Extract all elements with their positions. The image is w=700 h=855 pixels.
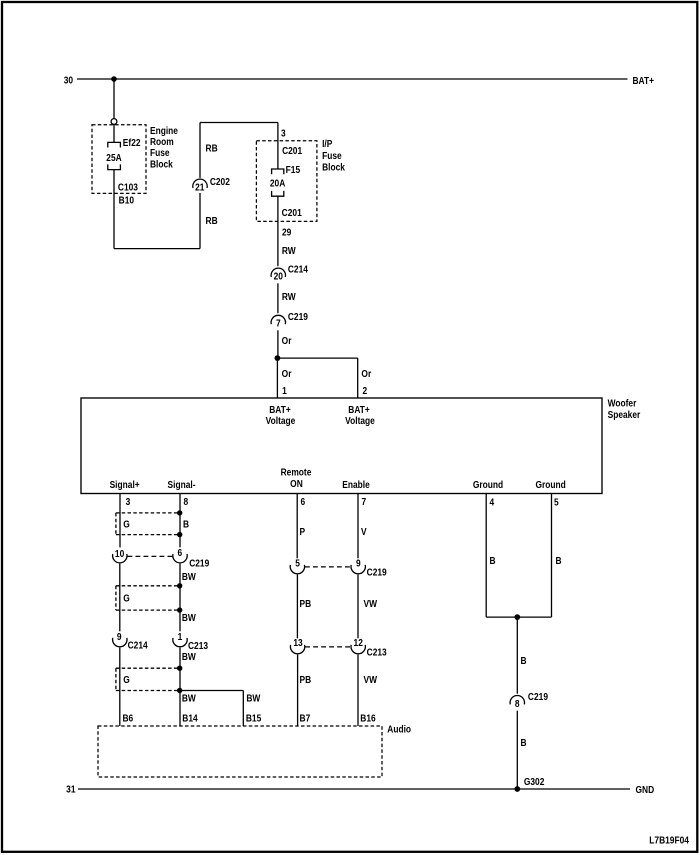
svg-text:12: 12 <box>354 637 363 649</box>
shield box 2 junction top <box>177 583 182 588</box>
svg-text:RW: RW <box>282 245 296 257</box>
wire VW pin9 to pin 12 arc <box>357 575 359 639</box>
connector circle at fuse block entry <box>111 119 117 125</box>
svg-text:VW: VW <box>364 598 378 610</box>
svg-text:I/P: I/P <box>322 138 333 150</box>
svg-text:Or: Or <box>282 335 292 347</box>
svg-text:Signal+: Signal+ <box>110 479 140 491</box>
svg-text:31: 31 <box>66 784 76 796</box>
junction Or split <box>275 355 281 361</box>
svg-text:4: 4 <box>490 496 495 508</box>
svg-text:Remote: Remote <box>281 466 312 478</box>
connector C214 arc pin 9 <box>113 638 127 647</box>
svg-text:Enable: Enable <box>342 479 370 491</box>
svg-text:RB: RB <box>206 215 218 227</box>
svg-text:Block: Block <box>322 162 345 174</box>
svg-text:7: 7 <box>276 318 281 330</box>
connector C219 arc pin 8 <box>510 696 524 705</box>
svg-text:BAT+: BAT+ <box>632 75 654 87</box>
engine room fuse block box <box>92 125 146 194</box>
svg-text:C219: C219 <box>189 558 209 570</box>
wire bus 31 GND <box>78 788 630 790</box>
shield box 3 left dashed <box>115 668 117 690</box>
svg-text:RW: RW <box>282 291 296 303</box>
wire from bus 30 to engine room fuse block <box>113 79 115 119</box>
svg-text:G: G <box>123 593 130 605</box>
svg-text:B16: B16 <box>360 713 375 725</box>
shield box 1 bottom dashed <box>116 534 180 536</box>
svg-text:21: 21 <box>195 182 205 194</box>
svg-text:Voltage: Voltage <box>266 415 296 427</box>
svg-text:3: 3 <box>126 496 131 508</box>
shield box 3 junction bottom <box>177 688 182 693</box>
svg-text:B14: B14 <box>182 713 198 725</box>
wire VW pin12 to audio unit <box>357 655 359 727</box>
svg-text:BW: BW <box>182 651 196 663</box>
svg-text:Woofer: Woofer <box>608 398 637 410</box>
svg-text:G: G <box>123 674 130 686</box>
svg-text:C214: C214 <box>288 263 309 275</box>
wire RB above C202 <box>199 123 201 178</box>
wire BW pin1 to audio unit <box>179 648 181 727</box>
svg-text:G302: G302 <box>524 776 545 788</box>
connector link dashed pins 5-9 <box>305 566 351 568</box>
svg-text:C103: C103 <box>118 182 138 194</box>
shield box 1 junction top <box>177 510 182 515</box>
svg-text:Signal-: Signal- <box>168 479 196 491</box>
connector C219 arc pin 10 <box>113 554 127 563</box>
wire circle to fuse Ef22 <box>113 124 115 142</box>
audio unit box <box>98 726 382 777</box>
svg-text:GND: GND <box>636 784 655 796</box>
wire PB pin13 to audio unit <box>297 655 299 727</box>
svg-text:BW: BW <box>182 693 196 705</box>
svg-text:C219: C219 <box>528 691 548 703</box>
svg-text:ON: ON <box>290 478 303 490</box>
connector C213 arc pin 13 <box>290 645 304 654</box>
svg-text:8: 8 <box>184 496 189 508</box>
junction G302 <box>514 786 520 792</box>
woofer speaker box U1 <box>81 398 602 494</box>
connector C213 arc pin 12 <box>351 645 365 654</box>
svg-text:Block: Block <box>150 158 173 170</box>
svg-text:5: 5 <box>554 496 559 508</box>
connector C219 arc pin 7 <box>271 315 285 324</box>
wire fuse Ef22 to corner <box>113 170 115 249</box>
wire top link to I/P fuse block <box>200 122 278 124</box>
svg-text:Speaker: Speaker <box>608 409 641 421</box>
connector C219 arc pin 9 right <box>351 565 365 574</box>
wire BW branch horizontal <box>180 690 244 692</box>
svg-text:BW: BW <box>246 693 260 705</box>
wire B C219 to G302 <box>516 711 518 789</box>
svg-text:2: 2 <box>362 385 367 397</box>
connector C202 arc pin 21 <box>193 179 207 188</box>
shield box 3 junction top <box>177 666 182 671</box>
wire pin 6 Remote ON P <box>296 494 298 559</box>
svg-text:C201: C201 <box>282 145 303 157</box>
svg-text:9: 9 <box>356 558 361 570</box>
svg-text:B: B <box>556 555 562 567</box>
svg-text:Fuse: Fuse <box>322 150 342 162</box>
shield box 2 top dashed <box>116 585 180 587</box>
svg-text:30: 30 <box>64 75 73 87</box>
shield box 3 bottom dashed <box>116 690 180 692</box>
svg-text:Or: Or <box>282 368 292 380</box>
wire RW C214 to C219 <box>277 283 279 313</box>
svg-text:C202: C202 <box>210 176 230 188</box>
fuse F15 top terminal <box>272 169 284 174</box>
svg-text:1: 1 <box>282 385 287 397</box>
svg-text:C201: C201 <box>282 207 303 219</box>
connector C213 arc pin 1 <box>173 638 187 647</box>
connector link dashed pins 10-6 <box>128 555 173 557</box>
junction ground join <box>514 614 520 620</box>
svg-text:C219: C219 <box>288 311 308 323</box>
svg-text:Ground: Ground <box>535 479 565 491</box>
svg-text:3: 3 <box>281 128 286 140</box>
svg-text:Ef22: Ef22 <box>123 137 141 149</box>
svg-text:B6: B6 <box>122 713 133 725</box>
wire BW pin6 to pin 1 arc <box>179 564 181 632</box>
wire Or branch horizontal <box>277 357 357 359</box>
connector C219 arc pin 6 <box>173 554 187 563</box>
wire Or to pin 2 <box>357 358 359 398</box>
wire pin 3 into I/P fuse block <box>277 123 279 170</box>
svg-text:P: P <box>300 526 306 538</box>
svg-text:Voltage: Voltage <box>345 415 375 427</box>
svg-text:B10: B10 <box>119 194 134 206</box>
svg-text:1: 1 <box>178 631 183 643</box>
connector C219 arc pin 5 <box>290 565 304 574</box>
shield box 1 top dashed <box>116 512 180 514</box>
wire pin 7 Enable V <box>357 494 359 559</box>
svg-text:Ground: Ground <box>473 479 503 491</box>
svg-text:6: 6 <box>300 496 305 508</box>
svg-text:C214: C214 <box>128 639 149 651</box>
wire Or to pin 1 <box>276 358 278 398</box>
wire PB pin5 to pin 13 arc <box>296 575 298 639</box>
svg-text:Or: Or <box>361 368 371 380</box>
shield box 1 junction bottom <box>177 532 182 537</box>
svg-text:9: 9 <box>117 631 122 643</box>
wire ground join <box>486 616 551 618</box>
svg-text:B: B <box>520 655 526 667</box>
shield box 1 left dashed <box>115 513 117 535</box>
wire BW branch to B15 <box>242 691 244 727</box>
svg-text:20: 20 <box>274 271 283 283</box>
svg-text:PB: PB <box>300 598 312 610</box>
svg-text:RB: RB <box>206 143 218 155</box>
junction on bus 30 <box>111 76 117 82</box>
connector C214 arc pin 20 <box>271 268 285 277</box>
wire pin 5 Ground B <box>551 494 553 618</box>
wire pin 3 Signal+ to connector <box>119 494 121 548</box>
wire B join to C219 <box>516 617 518 694</box>
svg-text:G: G <box>123 519 130 531</box>
svg-text:20A: 20A <box>270 178 286 190</box>
shield box 2 junction bottom <box>177 607 182 612</box>
svg-text:7: 7 <box>362 496 367 508</box>
svg-text:PB: PB <box>300 674 312 686</box>
connector link dashed pins 13-12 <box>305 646 350 648</box>
svg-text:BW: BW <box>182 571 196 583</box>
wire RB below C202 <box>199 193 201 249</box>
svg-text:Audio: Audio <box>387 724 411 736</box>
svg-text:5: 5 <box>295 558 300 570</box>
shield box 3 top dashed <box>116 667 180 669</box>
wire Or C219 to junction <box>277 330 279 358</box>
svg-text:B15: B15 <box>246 713 262 725</box>
I/P fuse block box <box>256 141 317 222</box>
fuse Ef22 bottom terminal <box>108 164 121 169</box>
svg-text:C213: C213 <box>367 646 387 658</box>
svg-text:B: B <box>520 737 526 749</box>
svg-text:25A: 25A <box>106 152 122 164</box>
svg-text:VW: VW <box>364 674 378 686</box>
fuse Ef22 top terminal <box>108 142 121 147</box>
svg-text:F15: F15 <box>286 164 301 176</box>
svg-text:13: 13 <box>293 637 302 649</box>
svg-text:C219: C219 <box>367 566 387 578</box>
svg-text:V: V <box>361 526 367 538</box>
wire bus 30 BAT+ <box>77 78 628 80</box>
wire pin 8 Signal- to connector <box>179 494 181 548</box>
wire RW fuse F15 to C214 <box>277 196 279 266</box>
wire G pin9 to audio unit <box>119 648 121 727</box>
fuse F15 bottom terminal <box>272 191 284 196</box>
wire pin 4 Ground B <box>485 494 487 618</box>
svg-text:29: 29 <box>282 227 291 239</box>
wire G pin10 to pin 9 arc <box>119 564 121 632</box>
svg-text:L7B19F04: L7B19F04 <box>649 834 689 846</box>
svg-text:BW: BW <box>182 612 196 624</box>
wire corner to RB riser <box>114 248 200 250</box>
svg-text:6: 6 <box>178 547 183 559</box>
svg-text:8: 8 <box>515 698 520 710</box>
svg-text:B: B <box>183 519 189 531</box>
svg-text:B: B <box>490 555 496 567</box>
svg-text:B7: B7 <box>300 713 311 725</box>
shield box 2 left dashed <box>115 586 117 610</box>
svg-text:10: 10 <box>115 548 124 560</box>
shield box 2 bottom dashed <box>116 609 180 611</box>
